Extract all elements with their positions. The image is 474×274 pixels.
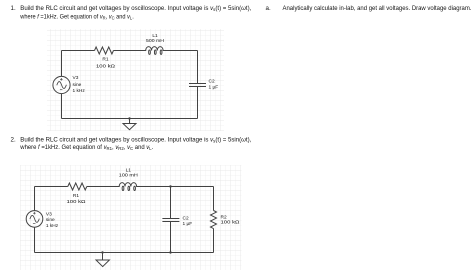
inductor L1 <box>117 183 139 187</box>
capacitor C2 <box>162 217 179 219</box>
wire: bottom <box>35 252 214 254</box>
node: ground junction <box>128 117 130 119</box>
node: ground junction <box>101 251 103 253</box>
grid canvas circuit 1 <box>47 29 224 131</box>
svg-text:100 kΩ: 100 kΩ <box>67 199 87 205</box>
svg-text:where f =1kHz. Get equation of: where f =1kHz. Get equation of vR, vC an… <box>19 13 134 20</box>
svg-text:where f =1kHz. Get equation of: where f =1kHz. Get equation of vR1, vR2,… <box>19 144 153 151</box>
svg-text:L1: L1 <box>126 167 132 173</box>
voltage source V3 <box>26 211 43 228</box>
svg-text:V3: V3 <box>73 75 79 81</box>
svg-text:2.: 2. <box>11 137 16 144</box>
resistor R1 <box>95 47 114 54</box>
svg-text:sine: sine <box>73 82 82 88</box>
wire: right vertical to capacitor <box>197 51 199 84</box>
svg-text:1 kHz: 1 kHz <box>73 88 86 94</box>
svg-text:sine: sine <box>46 217 55 223</box>
ground <box>129 119 131 124</box>
svg-text:L1: L1 <box>152 33 158 39</box>
resistor R2 <box>211 211 217 229</box>
wire: C2 branch bottom <box>170 222 172 253</box>
svg-text:R1: R1 <box>102 57 108 63</box>
svg-text:100 kΩ: 100 kΩ <box>221 220 241 226</box>
wire: top left segment <box>35 186 68 188</box>
svg-text:a.: a. <box>266 5 271 12</box>
svg-text:100 mH: 100 mH <box>119 173 139 179</box>
svg-text:100 kΩ: 100 kΩ <box>96 63 116 69</box>
svg-text:C2: C2 <box>183 215 189 221</box>
svg-text:Build the RLC circuit and get: Build the RLC circuit and get voltages b… <box>20 137 251 144</box>
wire: right vertical below capacitor <box>197 87 199 119</box>
node: C2 bottom junction <box>169 251 171 253</box>
svg-text:1 µF: 1 µF <box>183 221 193 227</box>
svg-text:1 kHz: 1 kHz <box>46 223 59 229</box>
wire: C2 branch top <box>170 187 172 219</box>
resistor R1 <box>68 183 87 190</box>
wire: right vertical below R2 <box>213 229 215 253</box>
svg-text:V3: V3 <box>46 212 52 218</box>
svg-text:1 µF: 1 µF <box>209 85 219 91</box>
inductor L1 <box>144 47 166 51</box>
wire: left vertical top <box>34 187 36 211</box>
wire: top right segment <box>139 186 214 188</box>
wire: top middle segment <box>114 50 144 52</box>
svg-text:Analytically calculate in-lab,: Analytically calculate in-lab, and get a… <box>283 5 472 12</box>
svg-text:R1: R1 <box>73 193 79 199</box>
svg-text:R2: R2 <box>221 214 227 220</box>
wire: top left segment <box>62 50 95 52</box>
svg-text:Build the RLC circuit and get: Build the RLC circuit and get voltages b… <box>20 5 251 12</box>
wire: top middle segment <box>87 186 117 188</box>
svg-text:1.: 1. <box>11 5 16 12</box>
wire: bottom <box>62 118 198 120</box>
wire: left vertical bottom <box>34 227 36 252</box>
capacitor C2 <box>189 82 206 84</box>
wire: top right segment <box>166 50 198 52</box>
grid canvas circuit 2 <box>20 165 242 270</box>
wire: left vertical bottom (source to corner) <box>61 94 63 119</box>
node: C2 top junction <box>169 185 171 187</box>
voltage source V3 <box>53 76 70 93</box>
ground <box>102 253 104 261</box>
wire: right vertical to R2 <box>213 187 215 211</box>
svg-text:500 mH: 500 mH <box>146 38 165 44</box>
svg-text:C2: C2 <box>209 79 215 85</box>
wire: left vertical top (corner to source) <box>61 51 63 77</box>
